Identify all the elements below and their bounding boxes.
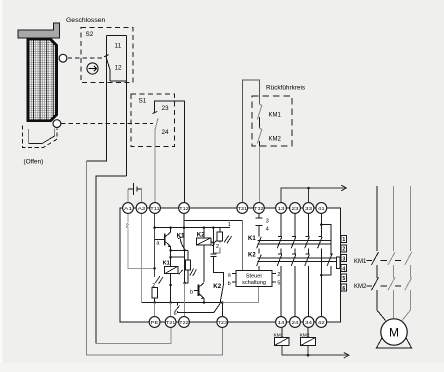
svg-text:1: 1	[228, 222, 231, 228]
svg-text:K1: K1	[248, 236, 256, 242]
label 2 on A1 column	[125, 222, 131, 229]
label a stub	[228, 272, 236, 278]
wire steuer box below to T23 rail	[222, 286, 258, 302]
terminal A2	[136, 203, 147, 214]
feedback dashed box	[252, 96, 292, 146]
terminal A1	[123, 203, 134, 214]
contact K2 output arm	[220, 285, 224, 304]
wire emitter rail1	[169, 249, 188, 251]
wire T12 rail down to T22	[184, 250, 186, 283]
coil KM2	[301, 328, 316, 346]
contactor KM1 main contacts	[366, 252, 411, 278]
wire battery to A1	[127, 189, 129, 202]
svg-text:T21: T21	[166, 320, 176, 326]
svg-text:23: 23	[162, 105, 170, 112]
svg-text:4: 4	[342, 267, 345, 273]
wire T11 internal column upper	[154, 214, 156, 277]
relay unit box	[120, 208, 341, 322]
svg-text:A1: A1	[124, 206, 132, 212]
svg-text:11: 11	[115, 43, 122, 50]
wire bottom rail3	[142, 302, 223, 304]
svg-text:schaltung: schaltung	[242, 280, 266, 286]
resistor on T11 column	[152, 288, 158, 303]
contact K2 drive arm left	[257, 255, 262, 271]
terminal 41	[316, 203, 327, 214]
wire T31 up and over to feedback	[242, 80, 259, 202]
contact KM1 NC (feedback)	[257, 104, 262, 129]
svg-text:KM1: KM1	[269, 113, 282, 119]
svg-text:3: 3	[342, 256, 345, 262]
svg-text:Rückführkreis: Rückführkreis	[266, 85, 305, 92]
motor phase L1	[376, 186, 378, 251]
wire T23 internal lead	[221, 303, 223, 317]
svg-text:33: 33	[305, 206, 312, 212]
wire T12 internal drop	[183, 214, 185, 250]
wire T32 connector pins 3-4	[255, 214, 262, 236]
junction dot top line	[307, 187, 310, 190]
resistor R2	[185, 250, 191, 283]
output column 33-34	[305, 214, 310, 316]
relay coil K1	[163, 250, 178, 302]
junction dot bottom line	[307, 354, 310, 357]
motor phase L2	[393, 186, 395, 251]
wire S2-12 bottom run to T21	[96, 328, 171, 344]
transistor b	[194, 283, 204, 303]
wire A1 internal to T11 node	[128, 214, 155, 268]
terminal PE	[149, 317, 160, 328]
svg-text:5: 5	[277, 280, 280, 286]
switch S2 dashed box	[81, 28, 133, 83]
stub 6 with contact and lower rail	[174, 303, 220, 318]
battery supply A1-A2	[128, 183, 142, 195]
door open (dashed ghost outline)	[23, 126, 58, 148]
door actuator circle top	[59, 54, 67, 62]
wire bus to connector pins column	[210, 228, 223, 285]
contactor KM2 main contacts	[366, 277, 411, 290]
contact K1 driver arm	[178, 237, 186, 250]
svg-text:1: 1	[342, 237, 345, 243]
terminal T12	[179, 203, 190, 214]
output column 13-14	[277, 214, 282, 316]
switch S1 dashed box	[131, 94, 175, 147]
terminal 33	[303, 203, 314, 214]
transistor a	[155, 228, 171, 251]
wire dashed linkage door to S1	[61, 123, 153, 125]
terminal 42	[316, 317, 327, 328]
motor M	[381, 319, 407, 345]
svg-text:Geschlossen: Geschlossen	[66, 17, 106, 24]
junction dot emitter	[203, 301, 206, 304]
motor phase L3	[409, 186, 411, 251]
contact S1 NO arm	[155, 118, 158, 129]
wire feedback to T32	[258, 146, 260, 202]
svg-text:2: 2	[216, 244, 219, 250]
terminal T21	[165, 317, 176, 328]
svg-text:K1: K1	[163, 261, 170, 267]
wire PE internal lead	[154, 303, 156, 317]
svg-text:6: 6	[342, 286, 345, 292]
stub 2 right of control box	[272, 272, 280, 278]
wire S2-11 to terminal T23 (left outer loop)	[87, 161, 223, 355]
coil KM1	[275, 328, 290, 346]
svg-text:S2: S2	[86, 31, 94, 38]
wire T22 internal lead	[184, 283, 186, 316]
junction dots 41 column	[320, 223, 323, 276]
wire R1 to connector column	[213, 248, 220, 253]
svg-text:12: 12	[115, 65, 123, 72]
linkage K2 row double lines	[258, 258, 337, 262]
junction dot T11 column	[153, 267, 156, 270]
wire T31 column to steuer box	[241, 220, 243, 270]
svg-text:PE: PE	[151, 320, 159, 326]
wire S2 pin11 left leg down	[87, 55, 107, 161]
svg-text:2: 2	[126, 224, 129, 230]
bus T12 to T31	[184, 219, 242, 221]
S2 actuator symbol (circle with arrow)	[87, 63, 98, 74]
svg-text:T12: T12	[179, 206, 189, 212]
relay coil K2	[197, 228, 211, 283]
svg-text:T22: T22	[179, 320, 189, 326]
connector key block right edge	[336, 257, 340, 269]
contact S2 NC arm	[104, 36, 110, 81]
junction dots mid rail	[169, 282, 186, 287]
svg-text:24: 24	[162, 129, 170, 136]
svg-text:K2: K2	[213, 283, 221, 290]
svg-text:5: 5	[342, 276, 345, 282]
svg-text:T23: T23	[218, 320, 228, 326]
svg-text:3: 3	[266, 219, 269, 225]
wire rail2 to R2	[171, 256, 185, 258]
svg-text:14: 14	[278, 320, 285, 326]
output column 23-24	[291, 214, 296, 316]
svg-text:24: 24	[292, 320, 299, 326]
terminal T31	[237, 203, 248, 214]
svg-text:b: b	[228, 281, 231, 287]
door actuator circle bottom	[53, 120, 61, 128]
svg-text:23: 23	[292, 206, 299, 212]
svg-text:A2: A2	[138, 206, 146, 212]
contact slash right of R1	[224, 235, 231, 243]
junction dot rail1	[169, 249, 172, 252]
control box Steuerschaltung	[236, 271, 272, 287]
contact S1 NO tick	[153, 111, 158, 113]
svg-text:M: M	[389, 326, 399, 340]
terminal T22	[179, 317, 190, 328]
wire S1 pin23 to T12	[155, 101, 185, 202]
svg-text:T32: T32	[254, 206, 264, 212]
wire S1 pin24 to T11	[154, 129, 156, 202]
svg-text:4: 4	[266, 226, 269, 232]
wire dashed linkage door to S2	[68, 57, 104, 59]
svg-text:Steuer: Steuer	[246, 274, 263, 280]
svg-text:T11: T11	[150, 206, 160, 212]
contact on T11 column	[155, 276, 163, 284]
junction dot T23	[221, 301, 224, 304]
wire A2 internal drop	[141, 214, 143, 302]
svg-text:13: 13	[278, 206, 285, 212]
contact tick near K1 coil	[179, 270, 183, 275]
terminal strip 1-6	[341, 235, 347, 292]
terminal 14	[276, 317, 287, 328]
junction dots bottom rail	[153, 301, 172, 304]
svg-text:6: 6	[174, 311, 177, 317]
door rail (top mounting bar)	[18, 23, 59, 38]
resistor R1	[217, 228, 223, 243]
svg-text:KM2: KM2	[300, 332, 310, 338]
svg-text:2: 2	[342, 247, 345, 253]
wire T21 internal lead	[170, 303, 172, 317]
terminal 34	[303, 317, 314, 328]
svg-text:KM2: KM2	[269, 137, 282, 143]
wire top arrow line from 13,23,33	[281, 185, 347, 202]
svg-text:(Offen): (Offen)	[24, 159, 44, 166]
contact K1 drive arm left	[257, 237, 262, 253]
contact KM2 NC (feedback)	[257, 128, 262, 146]
terminal T23	[217, 317, 228, 328]
bus T11 internal horizontal	[155, 227, 230, 229]
terminal 13	[276, 203, 287, 214]
svg-text:S1: S1	[139, 98, 147, 105]
terminal T32	[254, 203, 265, 214]
page edge light strips	[0, 0, 3, 372]
wire 41 bypass branch	[321, 225, 333, 276]
svg-text:KM2: KM2	[354, 284, 367, 290]
terminal T11	[150, 203, 161, 214]
terminal 24	[290, 317, 301, 328]
svg-text:b: b	[190, 289, 193, 295]
svg-text:34: 34	[305, 320, 312, 326]
label b stub	[228, 281, 236, 287]
svg-text:KM1: KM1	[274, 332, 284, 338]
svg-text:2: 2	[277, 272, 280, 278]
door closed (hatched panel)	[28, 39, 57, 120]
svg-text:41: 41	[318, 206, 325, 212]
svg-text:T31: T31	[238, 206, 248, 212]
wire S2-12 to terminal T21 (left inner loop)	[96, 176, 127, 344]
junction dots on buses	[153, 226, 214, 229]
svg-text:KM1: KM1	[354, 259, 367, 265]
linkage K1 row double lines	[258, 240, 331, 244]
wire S2 pin12 right leg down	[126, 36, 128, 177]
output column 41-42	[318, 214, 323, 316]
wire bottom arrow line	[282, 345, 349, 358]
svg-text:42: 42	[318, 320, 325, 326]
wire motor leads	[377, 290, 410, 320]
stub 5 right of control box	[272, 280, 280, 286]
svg-text:K2: K2	[248, 252, 256, 258]
terminal 23	[290, 203, 301, 214]
contact tick right of K2 coil	[211, 241, 216, 246]
motor mount pedestal	[377, 336, 412, 348]
contact slashes right of R2	[190, 268, 197, 276]
wire battery to A2	[141, 189, 143, 202]
contact S2 11-12 wiring loop	[106, 36, 126, 81]
